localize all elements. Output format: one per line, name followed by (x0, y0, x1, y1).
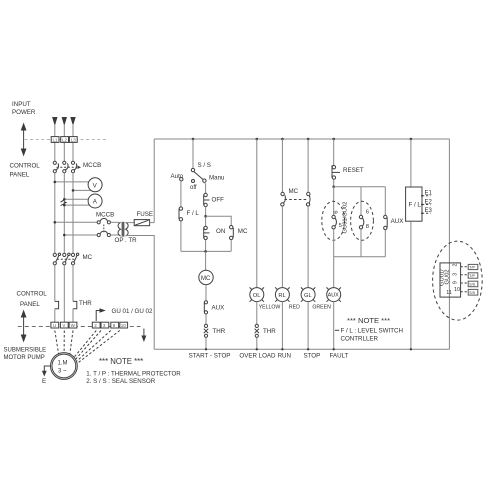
electrode stub E3 dashed (421, 212, 431, 214)
wire junction to MC aux branch (206, 216, 232, 225)
label SUBMERSIBLE MOTOR PUMP (4, 348, 47, 361)
connector box GU01/GU02 (440, 263, 461, 297)
dashed ellipse (pump connector GU01/GU02) (433, 241, 483, 320)
svg-text:F / L: F / L (409, 202, 422, 209)
wire L1 to terminal U (54, 309, 56, 323)
sensor lead pin9 dashed (77, 331, 111, 361)
svg-text:*** NOTE ***: *** NOTE *** (347, 316, 390, 325)
svg-text:RUN: RUN (278, 353, 291, 360)
dashed ellipse (GU01/GU02 contact 2) (351, 201, 374, 240)
pin lead 9 dashed (461, 282, 468, 284)
terminal GU pin 9 (111, 322, 119, 328)
selector contact off (192, 180, 195, 183)
svg-text:1. T / P : THERMAL PROTECTOR: 1. T / P : THERMAL PROTECTOR (86, 370, 181, 377)
svg-text:FAULT: FAULT (330, 353, 349, 360)
svg-text:MCCB: MCCB (83, 162, 101, 169)
svg-text:3: 3 (453, 273, 459, 276)
wire voltmeter tap from L1 (55, 181, 89, 183)
svg-text:S/S: S/S (469, 283, 475, 287)
node bottom rail junction (204, 250, 207, 253)
svg-text:F / L : LEVEL SWITCH: F / L : LEVEL SWITCH (341, 328, 403, 335)
pin lead 2 dashed (461, 266, 468, 268)
svg-text:FUSE: FUSE (137, 211, 154, 218)
wire group to AUX lamp (333, 257, 335, 288)
terminal L1 (51, 137, 59, 143)
motor lead V dashed (63, 331, 65, 353)
wire control tap from L2 (64, 234, 97, 236)
terminal W (69, 322, 77, 328)
svg-text:W: W (71, 323, 76, 328)
terminal V (60, 322, 68, 328)
svg-text:YELLOW: YELLOW (259, 305, 281, 311)
node FAULT branch on top bus (332, 138, 335, 141)
controller fault contact (pins 6-8) (359, 215, 364, 229)
node GL branch on top bus (307, 138, 310, 141)
panel boundary dashed line (bottom) (18, 326, 141, 328)
contactor aux contact MC (run lamp, NO) (281, 192, 286, 206)
svg-text:RED: RED (289, 305, 300, 311)
wire parallel group top rail (334, 186, 386, 188)
wire breaker to transformer primary top (111, 221, 120, 223)
svg-text:RL: RL (278, 293, 286, 299)
svg-text:CONTROL: CONTROL (10, 163, 41, 170)
mechanical link MC dashed (284, 199, 306, 201)
level switch controller F/L box (406, 187, 422, 221)
lamp OL yellow (250, 287, 264, 301)
svg-text:GL: GL (304, 293, 313, 299)
svg-text:3 ~: 3 ~ (58, 369, 67, 375)
svg-text:MC: MC (83, 254, 93, 261)
wire control circuit left riser (upper) (153, 139, 155, 223)
selector contact Manu (203, 179, 206, 182)
svg-text:CONTRLLER: CONTRLLER (341, 335, 379, 342)
wire F/L branch upper (410, 139, 412, 187)
svg-text:6: 6 (333, 211, 339, 214)
wire phase L2 lower (63, 265, 65, 322)
contactor coil MC (199, 270, 213, 284)
svg-text:MC: MC (289, 188, 299, 195)
motor lead W dashed (70, 331, 73, 355)
svg-text:THR: THR (263, 328, 276, 335)
svg-text:9: 9 (453, 281, 459, 284)
wire transformer secondary to fuse (126, 222, 134, 224)
wire ammeter tap lower (64, 204, 89, 206)
circuit breaker MCCB (3 pole) (53, 161, 81, 173)
wire AUX fault contact to bottom rail (384, 230, 386, 257)
wire breaker to transformer primary bottom (111, 234, 120, 236)
wire GL branch upper (307, 139, 309, 192)
wire fuse to control bus riser (150, 222, 155, 224)
svg-text:THR: THR (79, 300, 92, 307)
motor 1M submersible pump (51, 353, 78, 380)
thermal overload THR element L1 (55, 301, 59, 308)
node parallel group top (332, 185, 335, 188)
terminal GU pin 2 (92, 322, 100, 328)
svg-text:MC: MC (238, 228, 248, 235)
wire RL lamp to bottom bus (281, 302, 283, 350)
thermal overload THR element L3 (73, 301, 77, 308)
lamp RL red (275, 287, 289, 301)
svg-text:GU 01 / GU 02: GU 01 / GU 02 (112, 308, 153, 315)
svg-text:Manu: Manu (209, 174, 225, 181)
svg-text:ON: ON (216, 228, 225, 235)
svg-text:S / S: S / S (198, 162, 211, 169)
wire MC aux to bottom rail (230, 240, 232, 252)
selector contact Auto (180, 178, 183, 181)
svg-text:10: 10 (454, 287, 460, 293)
label CONTROL PANEL (bottom) (17, 291, 48, 309)
wire phase L2 mid (63, 173, 65, 254)
terminal GU pin 10 (120, 322, 128, 328)
svg-text:OVER LOAD: OVER LOAD (239, 353, 276, 360)
electrode stub E1 dashed (421, 195, 431, 197)
auxiliary contact AUX (204, 301, 207, 314)
wire middle fault contact to bottom rail (360, 229, 362, 257)
svg-text:S/S: S/S (469, 291, 475, 295)
wire rail to MC coil (205, 251, 207, 270)
wire GL contact to lamp (307, 206, 309, 288)
controller fault contact (pins 6-5) (332, 215, 337, 229)
wire OL lamp to THR (256, 302, 258, 325)
svg-text:T/P: T/P (469, 274, 475, 278)
svg-text:THR: THR (213, 328, 226, 335)
svg-text:F / L: F / L (187, 210, 200, 217)
level switch contact F/L (179, 207, 183, 221)
svg-text:T/P: T/P (469, 266, 475, 270)
svg-text:off: off (190, 185, 197, 191)
panel boundary dashed line (top) (25, 139, 109, 141)
node OL branch on top bus (255, 138, 258, 141)
lamp GL green (301, 287, 315, 301)
svg-text:L3: L3 (71, 138, 77, 143)
motor lead U dashed (55, 331, 59, 355)
svg-text:OP . TR: OP . TR (115, 237, 138, 244)
wire voltmeter tap from L3 (73, 189, 91, 191)
svg-text:PANEL: PANEL (20, 301, 40, 308)
svg-text:OFF: OFF (212, 197, 225, 204)
sensor box T/P 1 (468, 264, 478, 269)
wire control top bus (154, 138, 449, 140)
contactor aux contact MC (stop lamp, NC) (306, 192, 310, 206)
svg-text:PANEL: PANEL (10, 172, 30, 179)
svg-text:*** NOTE ***: *** NOTE *** (99, 357, 143, 366)
fuse FUSE (134, 220, 149, 226)
wire RESET to parallel group (333, 179, 335, 186)
node ammeter tap lower (63, 204, 66, 207)
pushbutton RESET (332, 165, 340, 179)
svg-text:MCCB: MCCB (96, 212, 114, 219)
svg-text:AUX: AUX (212, 304, 225, 311)
selector switch S/S common (191, 168, 194, 171)
selector blade to Manu (194, 172, 203, 180)
circuit breaker MCCB (control, 2 pole) (97, 218, 110, 236)
svg-text:E: E (42, 378, 46, 385)
node RL branch on top bus (281, 138, 284, 141)
ammeter A (88, 194, 102, 208)
wire F/L box to bottom bus (410, 221, 412, 349)
terminal L2 (61, 137, 69, 143)
label CONTROL PANEL (top) (10, 163, 41, 179)
pump side down arrow (141, 329, 146, 343)
wire AUX fault contact drop (384, 187, 386, 216)
wire control right edge (448, 139, 450, 349)
svg-text:MOTOR PUMP: MOTOR PUMP (4, 355, 45, 361)
label INPUT POWER (12, 101, 36, 116)
contactor aux contact MC (hold-in) (230, 226, 234, 240)
wire ammeter tap upper (64, 198, 88, 200)
wire middle fault contact drop (360, 187, 362, 216)
svg-text:1.M: 1.M (58, 360, 68, 366)
node control tap L1 (54, 221, 57, 224)
node F/L branch on bottom bus (410, 348, 412, 350)
dashed ellipse (GU01/GU02 contact 1) (322, 201, 345, 240)
auxiliary contact AUX (fault) (384, 215, 388, 229)
current transformer on L2 (61, 200, 68, 206)
voltmeter V (88, 178, 102, 192)
note pointer tick (335, 329, 339, 331)
wire phase L1 upper (54, 124, 56, 161)
contactor MC main contacts (3 pole) (53, 253, 79, 265)
node voltmeter tap L1 (54, 181, 57, 184)
svg-text:10: 10 (121, 323, 127, 328)
node parallel junction (204, 215, 207, 218)
node RL branch on bottom bus (281, 348, 283, 350)
sensor box T/P 2 (468, 273, 478, 278)
svg-text:GU02: GU02 (445, 269, 451, 284)
wire transformer secondary bottom to left rail (126, 236, 154, 350)
svg-text:L2: L2 (62, 138, 68, 143)
wire control bottom bus (154, 348, 449, 350)
wire phase L3 upper (72, 124, 74, 161)
svg-text:GU01/GU02: GU01/GU02 (342, 202, 348, 234)
pushbutton ON (204, 226, 210, 239)
wire OFF to junction (205, 207, 207, 227)
wire parallel group bottom rail (334, 256, 386, 258)
pin lead 3 dashed (461, 274, 468, 276)
wire control tap from L1 (55, 221, 97, 223)
node start-stop branch on bottom bus (205, 348, 207, 350)
lamp AUX fault (327, 287, 341, 301)
svg-text:CONTROL: CONTROL (17, 291, 48, 298)
svg-text:SUBMERSIBLE: SUBMERSIBLE (4, 348, 47, 354)
wire coil to AUX contact (205, 285, 207, 301)
sensor lead pin2 dashed (74, 331, 96, 357)
wire parallel bottom rail (181, 250, 231, 252)
terminal U (51, 322, 59, 328)
svg-text:GREEN: GREEN (312, 305, 331, 311)
svg-text:11: 11 (446, 290, 452, 296)
wire left fault contact to bottom rail (333, 229, 335, 257)
wire GL lamp to bottom bus (307, 302, 309, 350)
wire phase L3 lower (72, 265, 74, 302)
svg-text:START - STOP: START - STOP (189, 353, 231, 360)
sensor lead pin10 dashed (78, 331, 120, 363)
svg-text:STOP: STOP (304, 353, 321, 360)
svg-text:2: 2 (453, 264, 459, 267)
wire S/S drop (192, 139, 194, 168)
svg-text:AUX: AUX (391, 218, 404, 225)
terminal GU pin 3 (101, 322, 109, 328)
thermal contact THR (overload lamp branch) (255, 324, 259, 337)
node S/S branch on top bus (192, 138, 195, 141)
thermal contact THR (start-stop branch) (204, 324, 208, 337)
svg-text:INPUT: INPUT (12, 101, 31, 108)
wire L3 to terminal W (72, 309, 74, 323)
terminal L3 (69, 137, 77, 143)
node F/L branch on top bus (410, 138, 413, 141)
incoming supply arrowhead L1 (52, 117, 57, 126)
sensor box S/S 2 (468, 289, 478, 295)
svg-text:V: V (62, 323, 65, 328)
svg-text:RESET: RESET (343, 167, 364, 174)
transformer OP.TR (118, 222, 128, 237)
incoming supply arrowhead L2 (62, 117, 67, 126)
svg-text:6: 6 (366, 209, 369, 215)
ground wire E (42, 366, 51, 377)
node OL branch on bottom bus (256, 348, 258, 350)
node voltmeter tap L3 (72, 189, 75, 192)
pushbutton OFF (204, 193, 210, 206)
svg-text:POWER: POWER (12, 109, 36, 116)
leader arrow to GU 01 / GU 02 (96, 308, 106, 321)
panel boundary double arrow (bottom) (21, 310, 27, 343)
wire phase L1 mid (54, 173, 56, 254)
svg-text:8: 8 (366, 224, 369, 230)
wire phase L2 upper (63, 124, 65, 161)
node FAULT branch on bottom bus (333, 348, 335, 350)
wire left fault contact drop (333, 187, 335, 216)
svg-text:U: U (53, 323, 56, 328)
incoming supply arrowhead L3 (70, 117, 75, 126)
wire Manu branch upper (205, 182, 206, 193)
sensor lead pin3 dashed (76, 331, 101, 359)
electrode stub E2 dashed (421, 204, 431, 206)
wire AUX to THR (205, 314, 207, 324)
panel boundary double arrow (top) (21, 123, 27, 157)
wire RL contact to lamp (281, 206, 283, 288)
svg-text:AUX: AUX (328, 293, 339, 299)
node ammeter tap upper (63, 198, 66, 201)
svg-text:L1: L1 (53, 138, 59, 143)
node GL branch on bottom bus (307, 348, 309, 350)
svg-text:2. S / S : SEAL SENSOR: 2. S / S : SEAL SENSOR (86, 378, 155, 385)
wire AUX lamp to bottom bus (333, 302, 335, 350)
svg-text:MC: MC (201, 276, 211, 282)
sensor box S/S 1 (468, 281, 478, 287)
wire phase L3 mid (72, 173, 74, 254)
wire THR to bottom bus (OL) (256, 337, 258, 349)
wire OL branch upper (256, 139, 258, 288)
wire FAULT branch upper (333, 139, 335, 166)
wire phase L1 lower (54, 265, 56, 302)
node control tap L2 (63, 234, 66, 237)
svg-text:E2: E2 (425, 199, 433, 205)
wire Auto branch lower (180, 221, 182, 251)
svg-text:OL: OL (253, 293, 262, 299)
svg-text:E3: E3 (425, 208, 433, 214)
svg-text:E1: E1 (425, 191, 433, 197)
pin lead 10 dashed (461, 291, 468, 293)
wire RL branch upper (281, 139, 283, 192)
wire THR to bottom bus (205, 337, 207, 349)
wire ON to bottom rail (205, 240, 207, 252)
wire Auto branch upper (180, 181, 182, 207)
svg-text:Auto: Auto (171, 173, 184, 180)
